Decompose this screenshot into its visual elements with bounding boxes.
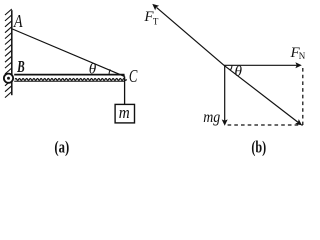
svg-text:C: C <box>129 66 138 86</box>
vector F_T (tension) <box>152 4 224 65</box>
svg-text:(b): (b) <box>251 137 266 156</box>
svg-text:N: N <box>299 51 306 61</box>
vector mg (weight) <box>222 65 228 126</box>
angle arc theta at C <box>109 69 110 74</box>
svg-text:B: B <box>16 57 24 76</box>
beam (shaded bar B to C) <box>14 75 126 82</box>
dashed horizontal (component construction) <box>228 124 303 126</box>
vector F_N (normal) <box>224 62 302 68</box>
string A to C <box>12 29 124 76</box>
svg-text:m: m <box>119 103 130 122</box>
svg-text:A: A <box>13 11 23 31</box>
wall hatching <box>5 9 12 98</box>
svg-text:(a): (a) <box>54 137 69 156</box>
pivot hinge at B <box>4 74 13 83</box>
mass block m <box>115 104 134 123</box>
angle arc theta at origin <box>230 65 232 70</box>
svg-text:T: T <box>153 17 159 27</box>
resultant vector (down-right along string line) <box>224 65 302 125</box>
wall line <box>11 10 13 95</box>
dashed vertical (component construction) <box>302 68 304 125</box>
svg-text:θ: θ <box>235 64 243 80</box>
svg-text:mg: mg <box>203 109 220 126</box>
svg-text:θ: θ <box>89 62 97 78</box>
hanging cord from C <box>124 77 126 105</box>
